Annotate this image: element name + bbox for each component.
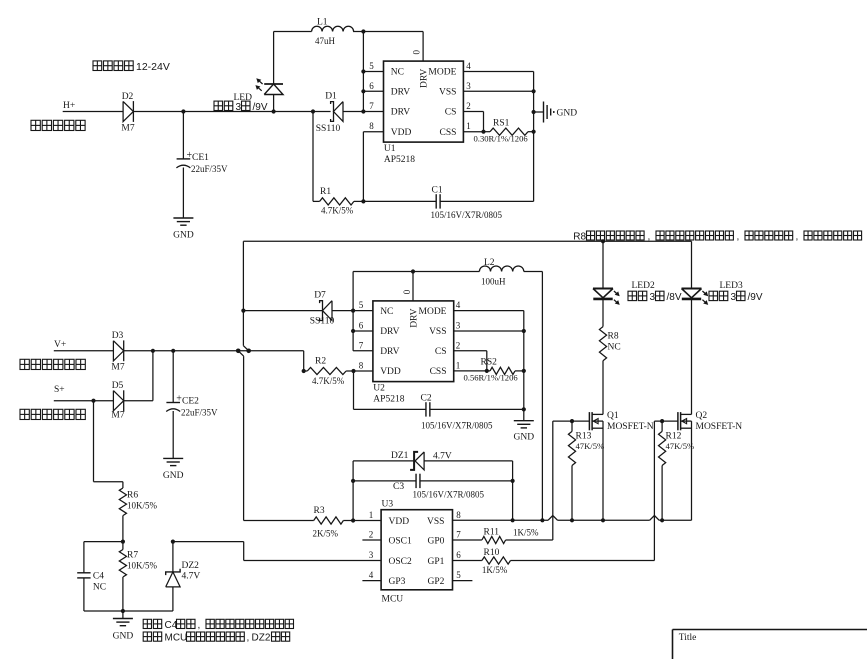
svg-text:R1: R1	[320, 187, 331, 197]
pin number 1 (U3)	[369, 510, 374, 520]
label Q2	[696, 411, 708, 421]
pin name CSS (U1)	[439, 128, 456, 138]
svg-text:DZ2: DZ2	[252, 633, 271, 644]
op-amp U2 body (AP5218)	[373, 301, 454, 382]
junction DZ1/C3 rail on VSS row	[510, 518, 514, 522]
wire pin6 stub (U1)	[363, 90, 383, 92]
svg-text:MODE: MODE	[419, 307, 447, 317]
svg-text:0: 0	[412, 50, 422, 55]
ground GND (CE2)	[163, 458, 184, 481]
LED3 blue LED	[682, 289, 709, 305]
pin number 7 (U1)	[369, 101, 374, 111]
capacitor C1	[436, 194, 440, 208]
svg-text:RS2: RS2	[481, 358, 498, 368]
junction R6 tap on S+	[91, 399, 95, 403]
wire VDD row to R3	[244, 520, 314, 522]
text label: red-blue lamp always-on line (CJK)	[20, 359, 85, 369]
wire DZ1 row	[353, 460, 414, 462]
wire pin3 OSC2 feed	[173, 542, 381, 561]
junction CS/CSS (U1)	[481, 130, 485, 134]
pin name VDD (U1)	[391, 128, 412, 138]
label C4	[93, 572, 104, 582]
ground GND (CE1)	[173, 218, 194, 241]
pin name GP1 (U3)	[427, 557, 444, 567]
transistor Q2 (N-MOSFET)	[678, 412, 692, 430]
wire node A to LED1 tap	[183, 111, 273, 113]
wire CE1 to ground	[182, 168, 184, 219]
pin number 8 (U1)	[369, 121, 374, 131]
junction pin6 rail (U1)	[361, 89, 365, 93]
svg-text:R6: R6	[127, 491, 138, 501]
svg-text:7: 7	[369, 101, 374, 111]
title block Title text	[679, 633, 697, 643]
text label: white lamp 3-series/9V (CJK+latin)	[214, 101, 268, 113]
svg-text:MODE: MODE	[428, 68, 456, 78]
svg-text:SS110: SS110	[310, 317, 335, 327]
title block frame	[673, 630, 867, 659]
label R3	[314, 506, 325, 516]
pin number 4 (U2)	[456, 300, 461, 310]
junction pin5 rail (U1)	[361, 69, 365, 73]
svg-text:V+: V+	[54, 340, 66, 350]
svg-text:DRV: DRV	[391, 88, 410, 98]
ground GND (bottom)	[113, 619, 134, 642]
junction R2 left	[302, 369, 306, 373]
value 10K/5% (R7)	[127, 561, 158, 571]
junction CS/CSS (U2)	[485, 369, 489, 373]
svg-text:105/16V/X7R/0805: 105/16V/X7R/0805	[421, 421, 493, 431]
svg-text:GP2: GP2	[427, 577, 444, 587]
svg-text:M7: M7	[111, 363, 124, 373]
svg-text:8: 8	[359, 360, 364, 370]
pin name DRV top rotated (U2)	[409, 308, 419, 327]
label R8	[608, 332, 619, 342]
svg-text:D3: D3	[112, 331, 124, 341]
wire pin5 stub (U1)	[363, 71, 383, 73]
wire LED3 cathode to Q2 drain	[691, 299, 693, 415]
pin name CSS (U2)	[430, 367, 447, 377]
value MOSFET-N (Q1)	[607, 422, 654, 432]
wire R2 to pin8 (U2)	[346, 370, 373, 372]
wire C3 row right	[420, 480, 513, 482]
label C1	[432, 186, 443, 196]
svg-text:DRV: DRV	[409, 308, 419, 327]
label L1	[317, 18, 328, 28]
svg-text:U2: U2	[373, 384, 385, 394]
svg-text:0: 0	[402, 289, 412, 294]
text label: red-blue lamp strobe line (CJK)	[20, 409, 85, 419]
wire Q1 gate	[553, 420, 589, 422]
wire VSS return row	[453, 516, 692, 521]
value 22uF/35V (CE2)	[181, 408, 218, 418]
refdes U3	[382, 500, 394, 510]
value AP5218 (U2)	[373, 395, 404, 405]
svg-text:4: 4	[456, 300, 461, 310]
svg-text:DRV: DRV	[391, 108, 410, 118]
svg-text:6: 6	[369, 81, 374, 91]
wire pin8 VSS row (U3)	[452, 519, 454, 521]
svg-text:LED2: LED2	[632, 281, 655, 291]
svg-text:D1: D1	[325, 92, 337, 102]
wire top rail riser (V+ to LED rail)	[242, 241, 244, 345]
value 47K/5% (R13)	[576, 441, 605, 451]
junction pin7 rail (U1)	[361, 109, 365, 113]
value SS110 (D1)	[316, 124, 341, 134]
svg-text:4: 4	[466, 61, 471, 71]
svg-text:3: 3	[456, 321, 461, 331]
wire DZ1/C3 right rail	[512, 461, 514, 520]
svg-text:LED3: LED3	[720, 281, 743, 291]
svg-text:0.30R/1%/1206: 0.30R/1%/1206	[474, 134, 529, 144]
svg-text:GP1: GP1	[427, 557, 444, 567]
capacitor CE1	[176, 159, 190, 168]
svg-text:4.7V: 4.7V	[433, 452, 452, 462]
junction R2/C2 node	[351, 369, 355, 373]
svg-text:3: 3	[466, 81, 471, 91]
label R1	[320, 187, 331, 197]
junction R3/pin1/rail node	[351, 518, 355, 522]
wire right rail (U2)	[523, 311, 525, 421]
junction pin6 rail (U2)	[351, 329, 355, 333]
pin name GP2 (U3)	[427, 577, 444, 587]
svg-text:100uH: 100uH	[481, 277, 506, 287]
svg-text:,: ,	[737, 231, 740, 242]
svg-text:3: 3	[369, 550, 374, 560]
svg-text:R12: R12	[666, 432, 682, 442]
svg-text:10K/5%: 10K/5%	[127, 561, 158, 571]
wire GND tap (U1)	[534, 111, 544, 113]
label LED (LED1)	[234, 93, 253, 103]
pin number 3 (U2)	[456, 321, 461, 331]
svg-text:C4: C4	[93, 572, 104, 582]
value 105/16V/X7R/0805 (C3)	[413, 490, 485, 500]
zener DZ1	[410, 452, 424, 470]
junction D7 tap on riser	[241, 309, 245, 313]
junction fork left	[236, 349, 241, 354]
label C2	[421, 394, 432, 404]
wire R6 branch from S+	[94, 401, 123, 488]
wire D1 to pin7 node	[343, 111, 384, 113]
wire fork diagonals	[238, 346, 249, 356]
wire pin5 stub (U3)	[453, 580, 473, 582]
pin number 3 (U1)	[466, 81, 471, 91]
pin name CS (U1)	[445, 108, 457, 118]
svg-text:U1: U1	[384, 144, 396, 154]
value 1K/5% (R11)	[513, 528, 539, 538]
junction CE2 tap	[171, 349, 175, 353]
pin number 5 (U2)	[359, 300, 364, 310]
pin name OSC2 (U3)	[389, 557, 412, 567]
pin number 4 (U3)	[369, 570, 374, 580]
svg-text:,: ,	[198, 620, 201, 631]
wire L1 to U1 top pin	[353, 32, 423, 62]
wire R7 bottom	[122, 577, 124, 611]
wire C2 branch	[354, 371, 426, 409]
svg-text:7: 7	[456, 530, 461, 540]
wire pin1 CSS (U2)	[454, 370, 490, 372]
diode D3	[113, 340, 123, 361]
pin name DRV7 (U2)	[380, 347, 399, 357]
pin name CS (U2)	[435, 347, 447, 357]
pin name OSC1 (U3)	[389, 537, 412, 547]
inductor L1	[312, 26, 354, 31]
label + CE1	[187, 150, 210, 163]
label R12	[666, 432, 682, 442]
capacitor CE2	[166, 403, 180, 412]
svg-text:R2: R2	[315, 357, 326, 367]
pin number 1 (U2)	[456, 360, 461, 370]
svg-text:Title: Title	[679, 633, 697, 643]
value M7 (D3)	[111, 363, 124, 373]
op-amp U3 body (MCU)	[381, 510, 452, 590]
svg-text:R13: R13	[576, 432, 592, 442]
svg-text:CSS: CSS	[430, 367, 447, 377]
junction RS2/rail	[522, 369, 526, 373]
svg-text:NC: NC	[391, 68, 404, 78]
junction GND tap (U1)	[532, 110, 536, 114]
text note: operating voltage 12-24V (CJK placeholder) + 12-24V	[93, 61, 170, 73]
svg-text:S+: S+	[54, 385, 65, 395]
wire C2 to rail	[430, 408, 524, 410]
ground GND sideways (U1)	[544, 102, 578, 123]
junction C3 right	[510, 479, 514, 483]
inductor L2	[479, 266, 523, 272]
pin number 8 (U2)	[359, 360, 364, 370]
svg-text:105/16V/X7R/0805: 105/16V/X7R/0805	[413, 490, 485, 500]
svg-text:CE1: CE1	[192, 153, 209, 163]
svg-text:1K/5%: 1K/5%	[482, 565, 508, 575]
resistor R13	[568, 421, 575, 465]
svg-text:10K/5%: 10K/5%	[127, 501, 158, 511]
wire RS1 to rail	[528, 131, 534, 133]
text label: white-light always-on line (CJK)	[31, 120, 85, 130]
junction node A	[181, 109, 185, 113]
junction R12 on VSS row	[660, 518, 664, 522]
wire Q1 gate riser to R11	[552, 421, 554, 540]
wire LED2 cathode to R8	[602, 299, 604, 327]
wire pin5 stub (U2)	[353, 310, 373, 312]
pin name DRV top rotated (U1)	[420, 69, 430, 88]
wire R6 to node	[122, 516, 124, 542]
value NC (C4)	[93, 583, 106, 593]
junction DZ2 top node	[171, 540, 175, 544]
wire R8 to Q1 drain	[602, 361, 604, 415]
pin number 0 rotated (U2)	[402, 289, 412, 294]
svg-text:GND: GND	[173, 231, 194, 241]
wire LED1 cathode up to L1	[274, 32, 312, 85]
svg-text:7: 7	[359, 340, 364, 350]
resistor R11	[482, 536, 506, 543]
wire pin4 stub (U3)	[362, 580, 381, 582]
pin name DRV6 (U2)	[380, 327, 399, 337]
wire Q2 gate	[654, 420, 677, 422]
refdes U1	[384, 144, 396, 154]
svg-text:OSC2: OSC2	[389, 557, 412, 567]
LED1 white LED	[255, 78, 283, 94]
junction RS1/rail	[532, 130, 536, 134]
value AP5218 (U1)	[384, 155, 415, 165]
pin number 4 (U1)	[466, 61, 471, 71]
pin number 6 (U3)	[456, 550, 461, 560]
label RS2	[481, 358, 498, 368]
junction LED2 anode	[601, 239, 605, 243]
junction R13 top	[570, 419, 574, 423]
diode D1 (schottky)	[331, 102, 343, 122]
resistor R12	[659, 421, 666, 465]
svg-text:2: 2	[456, 340, 461, 350]
pin number 0 rotated (U1)	[412, 50, 422, 55]
svg-text:OSC1: OSC1	[389, 537, 412, 547]
svg-text:U3: U3	[382, 500, 394, 510]
pin name GP0 (U3)	[427, 537, 444, 547]
value 0.56R/1%/1206 (RS2)	[464, 373, 519, 383]
svg-text:GND: GND	[514, 433, 535, 443]
svg-text:VSS: VSS	[427, 517, 444, 527]
wire pin2 CS jog (U2)	[454, 351, 487, 371]
value 10K/5% (R6)	[127, 501, 158, 511]
svg-text:MOSFET-N: MOSFET-N	[607, 422, 654, 432]
wire C4 top branch	[84, 542, 123, 573]
value 105/16V/X7R/0805 (C2)	[421, 421, 493, 431]
svg-text:D2: D2	[122, 92, 134, 102]
value MCU (U3)	[382, 595, 404, 605]
wire DZ2 bottom	[123, 587, 173, 611]
svg-text:SS110: SS110	[316, 124, 341, 134]
svg-text:4.7V: 4.7V	[182, 572, 201, 582]
pin number 2 (U1)	[466, 101, 471, 111]
svg-text:R8: R8	[608, 332, 619, 342]
wire R1 to C1	[354, 200, 436, 202]
svg-text:4.7K/5%: 4.7K/5%	[321, 206, 354, 216]
wire C3 row left	[353, 480, 416, 482]
text label: red lamp 3-series/8V (CJK+latin)	[628, 291, 682, 303]
svg-text:C1: C1	[432, 186, 443, 196]
svg-text:R11: R11	[484, 528, 500, 538]
wire D5 riser	[152, 351, 154, 401]
svg-text:GND: GND	[113, 632, 134, 642]
svg-text:R8: R8	[573, 231, 586, 242]
capacitor CE1 branch wire	[182, 112, 184, 159]
svg-text:CE2: CE2	[182, 397, 199, 407]
wire pin4 MODE (U1)	[463, 71, 533, 73]
value 4.7V (DZ1)	[433, 452, 452, 462]
pin number 8 (U3)	[456, 510, 461, 520]
pin name MODE (U1)	[428, 68, 456, 78]
wire ground stub	[122, 611, 124, 619]
refdes U2	[373, 384, 385, 394]
value 47uH (L1)	[315, 36, 336, 46]
label DZ1	[391, 451, 409, 461]
wire LED2 anode drop	[602, 241, 604, 288]
label R6	[127, 491, 138, 501]
label R13	[576, 432, 592, 442]
pin name GP3 (U3)	[389, 577, 406, 587]
svg-text:5: 5	[369, 61, 374, 71]
svg-text:4.7K/5%: 4.7K/5%	[312, 376, 345, 386]
svg-text:VDD: VDD	[391, 128, 412, 138]
svg-text:C2: C2	[421, 394, 432, 404]
label R7	[127, 551, 138, 561]
resistor RS1	[490, 128, 528, 135]
capacitor C4	[77, 573, 90, 578]
label D5	[112, 381, 124, 391]
svg-text:1: 1	[369, 510, 374, 520]
label + CE2	[176, 394, 199, 407]
junction pin5 rail (U2)	[351, 309, 355, 313]
wire R11 to Q1 gate riser	[506, 539, 553, 541]
pin number 1 (U1)	[466, 121, 471, 131]
wire pin4 MODE (U2)	[454, 310, 524, 312]
svg-text:L2: L2	[484, 258, 495, 268]
svg-text:GND: GND	[557, 109, 578, 119]
text note: R8 purpose (CJK w/ R8 prefix)	[573, 231, 861, 242]
junction Q1 source on VSS row	[601, 518, 605, 522]
svg-text:M7: M7	[121, 124, 134, 134]
wire D5 to riser	[124, 400, 153, 402]
svg-text:VSS: VSS	[439, 88, 456, 98]
svg-text:3: 3	[731, 292, 737, 303]
resistor R3	[314, 517, 344, 524]
svg-text:D7: D7	[314, 291, 326, 301]
svg-text:RS1: RS1	[493, 119, 510, 129]
resistor R6	[119, 488, 126, 516]
svg-text:C3: C3	[393, 482, 404, 492]
junction fork right	[246, 349, 251, 354]
label D3	[112, 331, 124, 341]
svg-text:3: 3	[650, 292, 656, 303]
wire D3 to fork	[124, 350, 239, 352]
resistor R7	[119, 542, 126, 577]
svg-text:AP5218: AP5218	[373, 395, 404, 405]
junction VDD/R1/C1 (U1)	[361, 199, 365, 203]
svg-text:NC: NC	[380, 307, 393, 317]
svg-text:GP0: GP0	[427, 537, 444, 547]
svg-text:6: 6	[359, 321, 364, 331]
svg-text:8: 8	[456, 510, 461, 520]
wire R3 to MCU pin1	[343, 520, 381, 522]
junction C2/rail	[522, 407, 526, 411]
node S+ input label	[54, 385, 65, 395]
wire R1 left riser	[313, 112, 320, 202]
pin name DRV7 (U1)	[391, 108, 410, 118]
capacitor C3	[416, 474, 420, 488]
label DZ2	[182, 561, 200, 571]
svg-text:MCU: MCU	[382, 595, 404, 605]
svg-text:3: 3	[236, 102, 242, 113]
junction L1/rail	[361, 29, 365, 33]
pin name MODE (U2)	[419, 307, 447, 317]
pin name DRV6 (U1)	[391, 88, 410, 98]
label D7	[314, 291, 326, 301]
svg-text:VDD: VDD	[380, 367, 401, 377]
wire pin6 GP1 to R10	[453, 560, 482, 562]
pin number 5 (U1)	[369, 61, 374, 71]
wire Q2 source	[691, 421, 693, 520]
diode D5	[113, 390, 123, 411]
svg-text:R3: R3	[314, 506, 325, 516]
svg-text:47K/5%: 47K/5%	[576, 441, 605, 451]
value M7 (D5)	[111, 411, 124, 421]
wire riser to MCU VDD	[243, 356, 245, 520]
wire C1 to right rail	[440, 200, 533, 202]
text label: blue lamp 3-series/9V (CJK+latin)	[709, 291, 763, 303]
pin name VDD (U3)	[389, 517, 410, 527]
svg-text:,: ,	[247, 633, 250, 644]
junction ground node	[121, 609, 125, 613]
wire LED3 anode drop	[691, 241, 693, 288]
svg-text:GP3: GP3	[389, 577, 406, 587]
pin name VDD (U2)	[380, 367, 401, 377]
